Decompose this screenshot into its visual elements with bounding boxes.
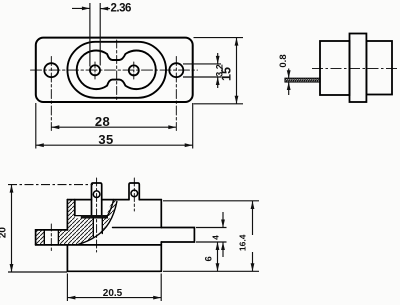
mounting ear outline [36, 230, 68, 245]
mounting hole left centerline / extension [50, 57, 52, 131]
flange section outline [67, 200, 74, 230]
dim 3.2 arrows [217, 53, 219, 64]
svg-text:0.8: 0.8 [278, 54, 289, 67]
hatch: wedge below bar (pin shank cut out) [75, 218, 111, 244]
dim 0.8 arrows [288, 69, 290, 79]
internal step line [113, 227, 162, 229]
cavity right wall curve [106, 200, 113, 218]
pin hole left [90, 65, 100, 75]
ear hole centerline [50, 224, 52, 252]
left pin centerline [96, 178, 98, 252]
dim 16.4 top extension [163, 200, 259, 202]
svg-text:4: 4 [211, 235, 221, 240]
dim 15 line [236, 38, 238, 72]
dim 20 bottom extension [8, 271, 67, 273]
pin hole right [129, 65, 139, 75]
svg-text:35: 35 [98, 132, 113, 147]
pin hole right centerline [133, 62, 135, 79]
front view flange outline [36, 38, 193, 102]
cavity floor [75, 215, 82, 217]
side view left box [320, 41, 350, 95]
body right edge [160, 200, 162, 272]
dim 15 extension lines [194, 37, 244, 39]
dim 28 line [51, 126, 102, 128]
vertical centerline of recess [116, 40, 118, 100]
body top edge [67, 199, 161, 201]
dim 16.4 / 6 bottom extension [163, 270, 259, 272]
mounting hole left [44, 63, 58, 77]
hatch: ear right [58, 230, 67, 245]
dim 2.36 arrows [72, 7, 90, 9]
dim 35 extension lines [35, 103, 37, 149]
svg-text:2.36: 2.36 [111, 2, 131, 14]
left pin hole [93, 191, 100, 198]
hatch: ear left [36, 230, 45, 245]
svg-text:20: 20 [0, 227, 8, 239]
svg-text:15: 15 [220, 67, 234, 81]
dim 4 / 6 shared extension [196, 241, 227, 243]
dim 16.4 line [252, 201, 254, 235]
dim 2.36 extension lines [89, 3, 91, 67]
body bottom edge [67, 270, 161, 272]
svg-text:6: 6 [203, 256, 214, 261]
right pin hole [131, 190, 138, 197]
hatch: flange strip [67, 200, 74, 245]
dim 20.5 line [67, 297, 112, 299]
svg-text:20.5: 20.5 [103, 288, 123, 299]
dim 20 line [11, 185, 13, 230]
svg-text:28: 28 [95, 114, 110, 129]
bottom view right pin [129, 183, 139, 200]
dim 20 top extension (dashed) [8, 184, 93, 186]
dim 3.2 extension lines [183, 63, 221, 65]
body left edge lower [66, 245, 68, 271]
pin shank below bar [93, 218, 102, 236]
ear hole edges [44, 230, 58, 245]
pin hole left centerline [94, 62, 96, 79]
bottom view left pin [92, 183, 102, 216]
flange/body mid line [36, 244, 162, 246]
horizontal centerline [31, 69, 198, 71]
side view pin (hatched) [285, 78, 320, 82]
contact bar (thick) [81, 215, 108, 219]
side view right box [366, 41, 392, 95]
mounting hole right centerline / extension [175, 57, 177, 131]
hatch: top sliver [106, 200, 117, 218]
dim 6 line [217, 242, 219, 257]
svg-text:16.4: 16.4 [237, 234, 247, 251]
outer recess outline [67, 42, 166, 98]
mounting hole right [169, 63, 183, 77]
side view centerline [312, 68, 398, 70]
inner figure-8 outline [77, 50, 156, 89]
dim 20.5 extension lines [66, 274, 68, 302]
dim 4 top extension [196, 227, 227, 229]
right pin centerline [133, 178, 135, 211]
solder tab [161, 228, 194, 243]
side view flange [350, 34, 367, 103]
section boundary arc [79, 202, 117, 245]
dim 35 line [36, 144, 106, 146]
dim 4 arrows [222, 212, 224, 228]
